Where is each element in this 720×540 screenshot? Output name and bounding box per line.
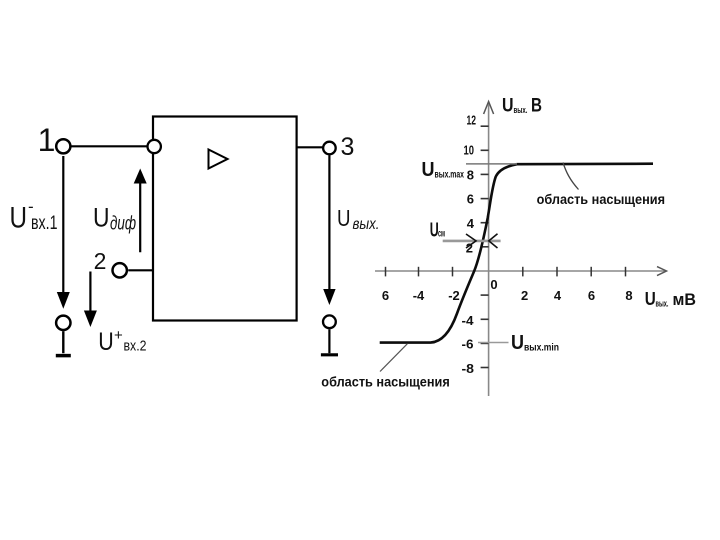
svg-text:-4: -4 [413, 288, 425, 303]
label Uvyh (schematic output) [337, 205, 380, 233]
wire terminal1 to input circle [71, 145, 147, 147]
terminal 2 circle [113, 263, 127, 277]
label Udif [93, 202, 136, 234]
label Uvyh mV (x axis unit) [645, 289, 696, 309]
svg-text:вых.min: вых.min [524, 343, 559, 354]
svg-text:вых.: вых. [353, 216, 380, 233]
svg-text:U: U [645, 289, 656, 309]
svg-text:U: U [337, 205, 351, 231]
Usm arrows [466, 234, 476, 248]
wire down from terminal 1 with arrow [62, 156, 64, 293]
right source circle [323, 315, 336, 328]
svg-text:U: U [98, 328, 114, 356]
y axis [488, 103, 490, 396]
terminal 3 circle [323, 142, 336, 155]
svg-text:6: 6 [588, 288, 595, 303]
label Uvyh V (y axis unit) [502, 96, 542, 117]
ground right [328, 329, 330, 353]
svg-text:4: 4 [467, 216, 475, 231]
wire output to terminal 3 [297, 146, 323, 148]
svg-text:8: 8 [625, 288, 632, 303]
wire terminal2 to box [128, 269, 153, 271]
svg-text:+: + [114, 327, 123, 344]
svg-text:0: 0 [490, 277, 497, 292]
svg-text:-8: -8 [462, 361, 475, 376]
left source circle [56, 316, 70, 330]
Uvyh.max level line [466, 163, 517, 165]
svg-text:6: 6 [467, 192, 474, 207]
svg-text:вых.: вых. [514, 105, 528, 115]
transfer curve [380, 164, 653, 343]
svg-text:12: 12 [467, 112, 477, 127]
svg-text:вх.2: вх.2 [124, 338, 147, 355]
svg-text:8: 8 [467, 167, 474, 182]
svg-text:вх.1: вх.1 [31, 213, 58, 234]
label Usm [430, 220, 445, 242]
svg-text:-6: -6 [462, 337, 474, 352]
svg-text:U: U [422, 159, 435, 181]
Usm offset bar [443, 240, 501, 243]
callout line bottom [380, 344, 407, 372]
svg-text:см: см [438, 229, 445, 240]
y axis numbers [462, 112, 477, 376]
svg-text:U: U [502, 96, 514, 117]
label U-vx.1 [10, 197, 58, 235]
x axis numbers [382, 277, 633, 303]
svg-text:область насыщения: область насыщения [537, 191, 665, 207]
svg-text:вых.max: вых.max [435, 170, 465, 181]
svg-text:В: В [531, 96, 542, 117]
arrow Udif (up) [139, 181, 141, 252]
svg-text:2: 2 [521, 288, 528, 303]
svg-text:U: U [511, 332, 524, 354]
svg-text:вых.: вых. [656, 299, 669, 309]
svg-text:1: 1 [38, 122, 56, 158]
svg-text:мВ: мВ [673, 291, 697, 309]
op-amp U1 triangle symbol [209, 150, 228, 169]
label Uvyh.max [422, 159, 465, 181]
svg-text:-4: -4 [462, 313, 475, 328]
svg-text:область насыщения: область насыщения [321, 373, 450, 389]
inverting input node circle on box edge [148, 140, 161, 153]
y axis ticks [481, 126, 489, 367]
op-amp U1 body [153, 117, 297, 321]
svg-text:2: 2 [94, 248, 107, 274]
Uvyh.min level line [478, 342, 509, 344]
x axis [375, 270, 666, 272]
label U+vx.2 [98, 327, 146, 356]
svg-text:10: 10 [464, 143, 475, 158]
terminal 1 circle [56, 139, 70, 153]
svg-text:диф: диф [110, 214, 136, 235]
arrow U+vx2 (down) [89, 272, 91, 313]
ground left [62, 331, 64, 353]
svg-text:U: U [93, 202, 110, 232]
label Uvyh.min [511, 332, 559, 354]
svg-text:U: U [10, 202, 28, 235]
svg-text:3: 3 [341, 133, 355, 161]
svg-text:4: 4 [554, 288, 562, 303]
wire down from terminal 3 with arrow [328, 155, 330, 290]
svg-text:6: 6 [382, 288, 389, 303]
x axis ticks [386, 267, 626, 277]
callout line top [563, 163, 579, 190]
svg-text:-2: -2 [448, 288, 460, 303]
